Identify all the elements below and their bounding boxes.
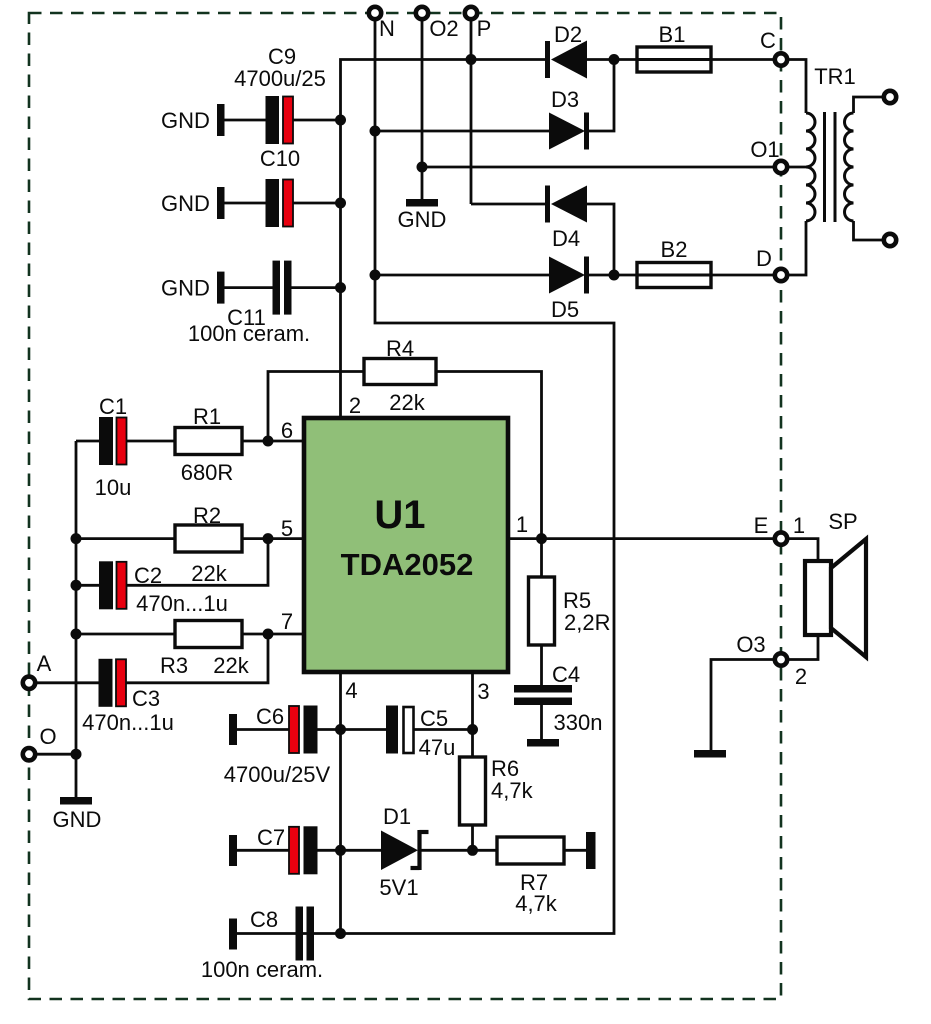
capacitor C7 [229, 825, 341, 874]
svg-text:GND: GND [398, 207, 447, 232]
svg-text:5V1: 5V1 [379, 875, 418, 900]
svg-text:GND: GND [53, 807, 102, 832]
terminal secondary top [884, 91, 896, 103]
svg-text:C2: C2 [134, 563, 162, 588]
wire: N vertical and N bus to bottom [237, 13, 614, 934]
ground symbol under O2 [398, 199, 447, 232]
terminal D [756, 246, 787, 281]
wire D4 row from P [471, 203, 545, 206]
wire pin 3 vertical [471, 672, 474, 757]
node: C11 junction [335, 282, 346, 293]
svg-text:R3: R3 [160, 653, 188, 678]
svg-text:D4: D4 [552, 226, 580, 251]
svg-text:10u: 10u [95, 475, 132, 500]
svg-text:O2: O2 [429, 16, 458, 41]
svg-text:C5: C5 [420, 706, 448, 731]
wire: P vertical down to D4 row [470, 13, 473, 204]
wire secondary bottom lead [854, 221, 883, 240]
capacitor C3 470n...1u [82, 659, 174, 735]
diode D3 [549, 87, 587, 150]
svg-text:2,2R: 2,2R [564, 610, 610, 635]
wire: +V rail vertical x=340.5 from top corner to U1 pin2 [341, 60, 546, 419]
capacitor C11 100n ceram. [188, 261, 310, 346]
svg-text:E: E [754, 513, 769, 538]
svg-text:C4: C4 [552, 662, 580, 687]
svg-text:D2: D2 [554, 22, 582, 47]
node: left bus R2 junction [71, 533, 82, 544]
wire D4 down to D5/B2 node [587, 204, 614, 275]
node: pin4/C6/C5 junction [335, 724, 346, 735]
transformer TR1 primary lead from C [789, 60, 806, 114]
capacitor C9 4700u/25 [234, 44, 326, 144]
wire C11 row [225, 286, 341, 289]
pin 7 label [281, 609, 293, 634]
diode D1 zener 5V1 [379, 804, 428, 900]
svg-text:C: C [760, 28, 776, 53]
node: left bus R3 junction [71, 629, 82, 640]
svg-text:4700u/25: 4700u/25 [234, 66, 326, 91]
svg-text:C7: C7 [257, 825, 285, 850]
wire C2 row [76, 539, 268, 586]
resistor R2 22k [175, 503, 242, 586]
svg-text:C3: C3 [132, 686, 160, 711]
svg-text:P: P [477, 16, 492, 41]
svg-text:22k: 22k [191, 561, 227, 586]
wire R3 row [76, 633, 304, 636]
wire left input bus vertical [75, 441, 78, 754]
wire D3 up to B1 node [587, 60, 615, 132]
svg-text:R2: R2 [193, 503, 221, 528]
fuse B2 [637, 237, 711, 288]
terminal O3 [736, 632, 807, 689]
diode D2 [548, 22, 588, 79]
diode D4 [548, 186, 588, 252]
wire O3 to ground bar [711, 660, 773, 751]
svg-text:R4: R4 [386, 336, 414, 361]
svg-text:D5: D5 [551, 297, 579, 322]
wire O1 tap to winding [789, 166, 806, 169]
svg-text:D1: D1 [383, 804, 411, 829]
svg-text:N: N [379, 16, 395, 41]
transformer TR1 core [814, 64, 856, 222]
wire O row [37, 753, 76, 756]
ground symbol bottom left [53, 754, 102, 832]
svg-text:22k: 22k [213, 653, 249, 678]
wire E to speaker [789, 539, 818, 561]
svg-text:22k: 22k [389, 390, 425, 415]
pin 4 label [345, 678, 357, 703]
svg-text:O3: O3 [736, 632, 765, 657]
capacitor C1 10u [95, 394, 132, 500]
terminal O2 [416, 7, 459, 41]
svg-text:330n: 330n [554, 710, 603, 735]
resistor R3 22k [160, 621, 250, 679]
transformer TR1 right winding [845, 113, 854, 221]
resistor R5 2,2R [529, 539, 611, 645]
wire D3 row [375, 130, 549, 133]
node: C9 junction [335, 115, 346, 126]
op-amp U1 TDA2052 [304, 418, 508, 672]
pin 2 label [349, 393, 361, 418]
svg-text:47u: 47u [419, 735, 456, 760]
svg-text:4,7k: 4,7k [491, 778, 534, 803]
pin 6 label [281, 418, 293, 443]
svg-text:R1: R1 [193, 404, 221, 429]
svg-text:2: 2 [795, 664, 807, 689]
node: pin5/C2 junction [263, 533, 274, 544]
svg-text:470n...1u: 470n...1u [136, 591, 228, 616]
dashed enclosure border [29, 13, 781, 999]
svg-text:A: A [37, 651, 52, 676]
svg-text:470n...1u: 470n...1u [82, 710, 174, 735]
wire C9 row [225, 119, 341, 122]
node: N/D5 junction [370, 270, 381, 281]
svg-text:D: D [756, 246, 772, 271]
svg-text:C1: C1 [99, 394, 127, 419]
svg-text:D3: D3 [551, 87, 579, 112]
node: pin1/R4/R5 junction [536, 533, 547, 544]
resistor R7 4,7k [497, 832, 596, 916]
terminal O1 [750, 137, 787, 173]
wire secondary top lead [854, 97, 883, 113]
resistor R1 680R [175, 404, 242, 485]
terminal N [369, 7, 395, 41]
svg-text:GND: GND [161, 276, 210, 301]
capacitor C6 4700u/25V [224, 704, 341, 787]
svg-text:B2: B2 [661, 237, 688, 262]
svg-text:4700u/25V: 4700u/25V [224, 762, 331, 787]
svg-text:C10: C10 [260, 146, 300, 171]
node: C10 junction [335, 198, 346, 209]
diode D5 [549, 257, 587, 323]
svg-text:6: 6 [281, 418, 293, 443]
svg-text:100n ceram.: 100n ceram. [188, 321, 310, 346]
node: D2/D3/B1 junction [609, 54, 620, 65]
svg-text:U1: U1 [374, 493, 425, 537]
svg-text:680R: 680R [181, 460, 234, 485]
wire C1 row [76, 440, 304, 443]
wire O3 to speaker [789, 635, 818, 660]
node: P junction on +V rail [466, 54, 477, 65]
wire pin 4 vertical [339, 672, 342, 934]
svg-text:TDA2052: TDA2052 [341, 547, 474, 582]
ground bar below O3 [694, 750, 726, 758]
terminal O [23, 724, 57, 760]
node: D4/D5/B2 junction [609, 270, 620, 281]
node: pin6/R4 junction [263, 436, 274, 447]
wire: O2 vertical [421, 13, 424, 199]
svg-text:GND: GND [161, 191, 210, 216]
node: pin3/C5/R6 junction [467, 724, 478, 735]
pin 1 label [516, 512, 528, 537]
svg-text:2: 2 [349, 393, 361, 418]
wire B1 to C terminal [711, 58, 773, 61]
svg-text:1: 1 [793, 513, 805, 538]
capacitor C10 [260, 146, 300, 227]
capacitor C5 47u [341, 706, 473, 761]
wire A row [37, 634, 268, 683]
speaker SP [805, 509, 866, 657]
wire D5 row [375, 274, 549, 277]
GND stub for C11 [161, 272, 225, 304]
terminal E [754, 513, 805, 545]
wire C7 node to D1 [341, 849, 382, 852]
pin 5 label [281, 516, 293, 541]
node: O2/O1 junction [417, 162, 428, 173]
capacitor C8 100n ceram. [201, 907, 323, 983]
GND stub for C10 [161, 187, 225, 219]
node: R6/D1/R7 junction [467, 845, 478, 856]
transformer TR1 left winding [806, 113, 815, 221]
svg-text:C6: C6 [256, 704, 284, 729]
wire O1 row [422, 166, 773, 169]
svg-text:SP: SP [828, 509, 857, 534]
svg-text:O1: O1 [750, 137, 779, 162]
terminal secondary bottom [884, 234, 896, 246]
wire B2 to D terminal [711, 274, 773, 277]
wire D1 to R7 [422, 849, 498, 852]
node: O/left bus junction [71, 749, 82, 760]
capacitor C4 330n [514, 645, 602, 747]
svg-text:3: 3 [477, 679, 489, 704]
terminal C [760, 28, 787, 66]
svg-text:TR1: TR1 [814, 64, 856, 89]
svg-text:C8: C8 [250, 907, 278, 932]
wire D terminal to winding bottom [789, 221, 806, 275]
svg-text:O: O [39, 724, 56, 749]
node: pin7/C3 junction [263, 629, 274, 640]
svg-text:100n ceram.: 100n ceram. [201, 957, 323, 982]
wire D2 to B1 [587, 58, 637, 61]
fuse B1 [637, 22, 711, 72]
node: pin4/C8/N bus junction [335, 928, 346, 939]
node: pin4/C7/D1 junction [335, 845, 346, 856]
node: left bus C2 junction [71, 580, 82, 591]
resistor R6 4,7k [460, 756, 534, 850]
terminal A [23, 651, 52, 689]
svg-text:4,7k: 4,7k [515, 891, 558, 916]
capacitor C2 470n...1u [99, 561, 228, 616]
pin 3 label [477, 679, 489, 704]
resistor R4 22k feedback [268, 336, 542, 539]
wire C10 row [225, 202, 341, 205]
node: N/D3 junction [370, 126, 381, 137]
wire pin1 output row [508, 537, 773, 540]
svg-text:1: 1 [516, 512, 528, 537]
GND stub for C9 [161, 104, 225, 136]
terminal P [465, 7, 492, 41]
wire D5 to B2 [587, 274, 638, 277]
svg-text:GND: GND [161, 108, 210, 133]
svg-text:B1: B1 [659, 22, 686, 47]
wire R2 row [76, 537, 304, 540]
svg-text:4: 4 [345, 678, 357, 703]
svg-text:7: 7 [281, 609, 293, 634]
